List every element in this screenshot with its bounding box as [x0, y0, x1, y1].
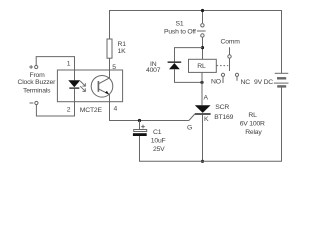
svg-text:10uF: 10uF: [151, 138, 166, 145]
wire relay to SCR anode: [201, 72, 203, 105]
svg-text:Comm: Comm: [221, 39, 241, 46]
wire pin2 lead: [36, 102, 74, 116]
wire pin5 inside: [109, 70, 111, 78]
battery B1 9V: [274, 73, 289, 86]
wire S1 branch upper: [202, 11, 204, 24]
svg-text:Terminals: Terminals: [23, 87, 51, 94]
svg-text:25V: 25V: [153, 146, 165, 153]
wire SCR cathode to bottom rail: [202, 115, 204, 162]
svg-text:6V 100R: 6V 100R: [240, 121, 265, 128]
relay contact Comm: [228, 47, 231, 71]
svg-text:NO: NO: [211, 79, 221, 86]
wire top rail: [110, 11, 282, 74]
node junction S1 top: [201, 9, 204, 12]
svg-text:Push to Off: Push to Off: [164, 28, 196, 35]
svg-text:BT169: BT169: [214, 114, 233, 121]
wire R1 to pin5: [109, 58, 111, 70]
relay coil RL box: [189, 59, 217, 72]
svg-text:4007: 4007: [146, 67, 161, 74]
svg-text:NC: NC: [241, 79, 251, 86]
diode D1 IN4007: [168, 62, 182, 70]
svg-text:9V DC: 9V DC: [254, 79, 273, 86]
wire pin4 inside: [109, 94, 111, 101]
svg-text:1: 1: [67, 61, 71, 68]
svg-text:1K: 1K: [118, 48, 127, 55]
svg-text:Clock Buzzer: Clock Buzzer: [18, 79, 57, 86]
svg-text:2: 2: [67, 106, 71, 113]
svg-text:G: G: [187, 125, 192, 132]
relay contact NC: [235, 73, 238, 81]
capacitor C1: [133, 121, 147, 137]
svg-text:K: K: [204, 116, 209, 123]
wire dashed relay link: [217, 65, 229, 67]
wire S1 to relay top: [202, 37, 204, 59]
resistor R1: [107, 39, 112, 58]
svg-text:RL: RL: [197, 63, 206, 70]
node junction cathode bottom: [201, 160, 204, 163]
wire gate to pin4: [110, 102, 189, 121]
svg-text:From: From: [30, 72, 46, 79]
svg-text:MCT2E: MCT2E: [80, 107, 103, 114]
svg-text:C1: C1: [153, 129, 162, 136]
svg-text:A: A: [204, 94, 209, 101]
switch S1: [197, 24, 206, 38]
wire diode bottom: [175, 69, 203, 82]
svg-text:RL: RL: [248, 112, 257, 119]
node junction diode bottom: [200, 81, 203, 84]
wire diode branch top: [175, 48, 203, 62]
svg-text:Relay: Relay: [245, 129, 262, 136]
node junction diode branch: [201, 46, 204, 49]
node junction capacitor top: [138, 119, 141, 122]
optocoupler U1 MCT2E box: [57, 70, 122, 102]
svg-text:S1: S1: [176, 21, 184, 28]
phototransistor inside optocoupler: [91, 76, 113, 98]
wire bottom rail: [140, 87, 282, 162]
svg-text:SCR: SCR: [215, 104, 229, 111]
LED inside optocoupler: [68, 70, 80, 102]
terminal minus: [30, 101, 39, 104]
relay contact NO: [221, 73, 224, 83]
LED light arrows: [80, 81, 85, 91]
terminal plus: [29, 65, 38, 69]
wire pin1 lead: [36, 57, 74, 70]
svg-text:5: 5: [112, 64, 116, 71]
svg-text:4: 4: [114, 106, 118, 113]
SCR U2 BT169: [189, 105, 211, 120]
